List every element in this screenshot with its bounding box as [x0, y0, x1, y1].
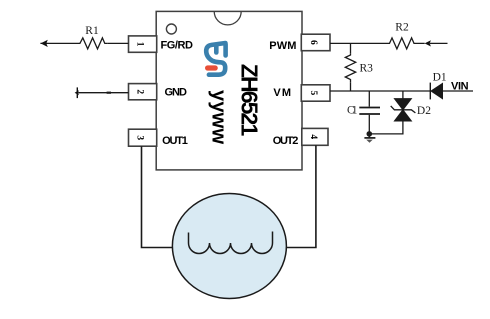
svg-text:ZH6521: ZH6521 — [237, 64, 263, 137]
motor M1 — [172, 194, 286, 299]
ground — [368, 134, 370, 138]
wire R3 to VM line — [350, 82, 352, 91]
pin box 6 — [301, 34, 330, 51]
svg-text:R3: R3 — [360, 63, 374, 75]
pin box 5 — [301, 85, 330, 101]
wire pin3 down to motor — [142, 146, 174, 247]
VM net wire pin5 to D1 — [330, 90, 430, 92]
svg-text:D1: D1 — [433, 72, 447, 84]
svg-text:3: 3 — [135, 135, 145, 140]
capacitor C1 bottom wire — [368, 115, 370, 134]
wire pin1 to R1 — [107, 42, 128, 44]
svg-text:PWM: PWM — [269, 40, 296, 52]
svg-text:VIN: VIN — [451, 81, 469, 93]
IC U1 ZH6521 body — [156, 11, 302, 170]
wire pin2 to arrow — [78, 92, 128, 94]
diode D1 cathode bar — [429, 83, 431, 100]
svg-text:R1: R1 — [85, 25, 99, 37]
svg-text:5: 5 — [308, 91, 318, 96]
svg-text:2: 2 — [135, 89, 145, 94]
svg-text:6: 6 — [308, 40, 318, 45]
zener D2 bar with hooks — [391, 106, 416, 113]
svg-text:4: 4 — [308, 134, 318, 139]
pin box 2 — [129, 84, 157, 100]
svg-text:C1: C1 — [347, 105, 358, 117]
capacitor C1 branch wire top — [368, 91, 370, 107]
arrowhead GND — [75, 90, 79, 95]
wire R1 to arrow — [40, 42, 77, 44]
logo (blue S-mark with red dash, rotated) — [206, 43, 225, 75]
arrowhead left (FG/RD out) — [41, 40, 48, 47]
wire R2 to arrow, arrow line — [416, 42, 448, 44]
svg-text:R2: R2 — [395, 22, 409, 34]
wire D2 branch top — [402, 91, 404, 99]
capacitor C1 — [359, 108, 380, 115]
IC top notch — [214, 11, 241, 25]
svg-text:yyww: yyww — [208, 90, 230, 144]
zener D2 lower triangle — [394, 110, 411, 121]
wire pin6 to R2 — [330, 42, 387, 44]
svg-text:OUT1: OUT1 — [162, 135, 188, 147]
svg-text:VM: VM — [273, 87, 291, 99]
wire pin4 down to motor — [286, 145, 316, 247]
junction dot ground node — [367, 131, 373, 137]
small dash on GND wire — [107, 92, 111, 94]
svg-text:OUT2: OUT2 — [273, 135, 299, 147]
resistor R3 — [345, 53, 355, 82]
pin box 3 — [129, 129, 157, 146]
arrowhead PWM input — [425, 40, 431, 46]
zener diode D2 (TVS) upper triangle — [394, 99, 411, 110]
resistor R1 — [78, 38, 108, 49]
motor coil winding — [189, 232, 273, 254]
diode D1 triangle — [431, 83, 443, 98]
svg-text:D2: D2 — [417, 105, 431, 117]
svg-text:1: 1 — [135, 42, 145, 47]
pin box 4 — [302, 128, 328, 145]
pin-1 indicator dot — [166, 24, 176, 34]
svg-text:FG/RD: FG/RD — [161, 40, 194, 52]
pin box 1 — [129, 36, 157, 52]
resistor R2 — [387, 38, 416, 49]
svg-text:GND: GND — [165, 87, 187, 99]
wire D1 to VIN — [443, 90, 474, 92]
wire D2 bottom to ground node — [369, 121, 403, 134]
wire junction pin6 to R3 — [350, 43, 352, 53]
